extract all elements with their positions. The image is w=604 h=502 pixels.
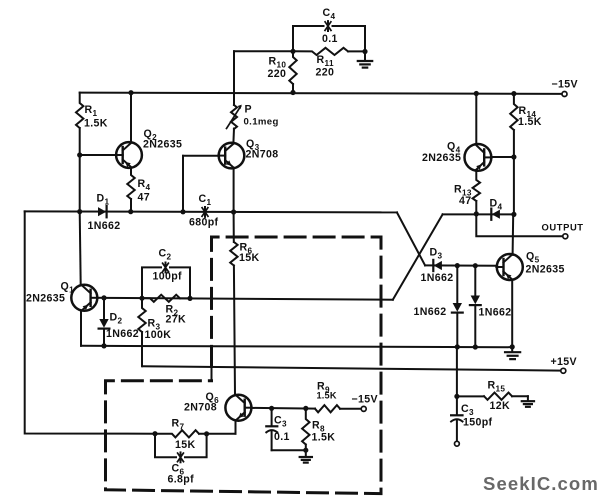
node: R11 right junction [362,49,367,54]
svg-text:100pf: 100pf [153,271,183,283]
watermark SeekIC.com [483,473,599,494]
svg-text:1.5K: 1.5K [317,391,337,401]
resistor R7 15K [155,418,236,451]
wire: Q6 emitter [235,420,237,434]
wire: crossover from feedback line to D4 line [393,214,443,299]
resistor R6 15K [230,212,259,395]
wire: Q4 collector [475,94,477,145]
svg-text:SeekIC.com: SeekIC.com [483,473,599,494]
svg-text:R4: R4 [138,178,151,192]
diode D3 1N662 [421,247,454,285]
ground (Q5 emitter) [505,347,520,359]
wire: P to Q3 collector [232,129,235,143]
wire: Q3 base drop to C1 node [182,156,184,212]
resistor R9 1.5K [315,381,361,413]
svg-text:2N708: 2N708 [184,402,217,414]
svg-text:15K: 15K [239,252,259,264]
svg-text:2N2635: 2N2635 [143,139,182,151]
dashed feedback enclosure [106,237,382,494]
svg-text:C3: C3 [461,403,474,417]
node: R13 bottom junction [474,211,479,216]
resistor R13 47 [454,171,480,214]
svg-text:1.5K: 1.5K [518,116,542,128]
capacitor C4 0.1 [293,7,365,52]
resistor R4 [127,168,150,212]
svg-text:1N662: 1N662 [479,306,512,318]
svg-text:D1: D1 [97,193,110,207]
svg-text:220: 220 [316,67,335,79]
transistor Q4 [422,141,492,171]
node: R8 top junction [303,406,308,411]
wire: D4 line [443,213,514,215]
node: Q3 emitter junction on C1 line [231,209,236,214]
svg-text:−15V: −15V [352,394,378,406]
svg-text:2N2635: 2N2635 [526,264,565,276]
node: R7 right junction [204,431,209,436]
node: R4 bottom junction [128,209,133,214]
svg-text:2N2635: 2N2635 [422,152,461,164]
wire: -15V supply rail [80,93,562,94]
transistor Q3 [218,138,278,168]
svg-text:0.1meg: 0.1meg [244,117,279,128]
ground (R15 right) [522,396,534,407]
node: R8 bottom junction [303,448,308,453]
svg-text:OUTPUT: OUTPUT [542,222,584,233]
capacitor C3 150pf [451,396,492,441]
capacitor C2 100pf [142,248,190,299]
svg-text:6.8pf: 6.8pf [168,474,195,486]
svg-text:1N662: 1N662 [106,328,139,340]
transistor Q6 [184,391,252,421]
svg-text:100K: 100K [145,329,172,341]
diode 1N662 (left vertical) [414,266,463,347]
diode D1 1N662 [88,193,121,232]
node: C3 top junction [269,406,274,411]
resistor R8 1.5K [302,408,335,450]
terminal -15V (bottom) [352,394,378,412]
wire: Q2 base lead [80,154,117,156]
wire: rail stub to dashed box corner [211,367,213,381]
terminal (C3 150pf bottom) [455,441,460,446]
wire: Q1 emitter [80,311,82,346]
svg-text:R15: R15 [488,380,506,394]
wire: Q3 base lead [183,155,219,157]
node: Q1 base junction [101,295,106,300]
svg-text:1N662: 1N662 [88,220,121,232]
node: rail junction at Q4 collector [474,91,479,96]
svg-text:R1: R1 [85,104,98,118]
node: D3 line junction left [455,263,460,268]
transistor Q5 [496,251,564,281]
wire: rail to P [233,51,235,105]
svg-text:D4: D4 [490,198,503,212]
svg-text:2N2635: 2N2635 [26,293,65,305]
svg-text:P: P [245,104,252,116]
svg-text:12K: 12K [490,400,510,412]
node: diode bottom junction left [455,344,460,349]
wire: left border down to R7 line [25,211,155,433]
node: R10 top junction [290,49,295,54]
svg-text:1N662: 1N662 [421,272,454,284]
wire: Q6 base line [251,407,315,410]
svg-text:C4: C4 [323,7,336,21]
wire: R14 to D4 line [513,157,515,214]
resistor R2 27K [142,295,190,326]
svg-text:2N708: 2N708 [246,149,279,161]
potentiometer P 0.1meg [227,104,279,130]
wire: R1 to D1 line [79,155,81,212]
node: D3 line junction right [473,263,478,268]
svg-text:1.5K: 1.5K [84,118,108,130]
wire: Q5 emitter [511,280,513,347]
wire: Q1 collector [80,212,81,285]
wire: C1-D1 horizontal line [25,211,397,212]
resistor R1 [76,93,108,155]
wire: crossover from C1 line to D3 line [397,212,425,265]
svg-text:220: 220 [268,68,287,80]
wire: ground line [81,346,512,347]
wire: D3 to Q5 base line [425,264,497,266]
node: D4 right junction [511,212,516,217]
terminal +15V [551,356,577,373]
capacitor C3 0.1 [266,408,306,450]
svg-text:1N662: 1N662 [414,306,447,318]
svg-text:−15V: −15V [552,79,578,91]
wire: P node to R10 top [234,50,293,52]
node: rail junction at R10 [290,90,295,95]
svg-text:0.1: 0.1 [322,33,338,45]
wire: +15V rail [143,366,561,370]
diode D2 1N662 [99,298,139,346]
wire: Q3 emitter [233,168,235,212]
node: Q3 base drop junction [180,209,185,214]
svg-text:R7: R7 [172,418,185,432]
svg-text:27K: 27K [166,314,186,326]
node: rail junction at R14 [511,91,516,96]
svg-text:+15V: +15V [551,356,577,368]
svg-text:C2: C2 [159,248,172,262]
svg-text:47: 47 [138,192,150,204]
capacitor C6 6.8pf [155,434,207,486]
diode 1N662 (right vertical) [470,266,512,347]
wire: Q4 base lead wire [491,156,514,158]
wire: Q1 base lead wire [97,297,104,299]
svg-text:1.5K: 1.5K [312,432,336,444]
node: Q2 base junction [77,152,82,157]
wire: Q5 collector [512,214,515,254]
svg-text:C3: C3 [274,415,287,429]
wire: diode node to C3 150pf [456,347,458,396]
resistor R3 100K [138,298,171,366]
wire: feedback line to crossover [104,298,393,300]
ground (C4/R11 right) [358,52,372,68]
svg-text:680pf: 680pf [189,217,219,229]
node: Q5 emitter ground junction [510,344,515,349]
transistor Q2 [116,128,183,168]
node: C3/R15 junction [454,394,459,399]
svg-text:150pf: 150pf [463,417,493,429]
node: rail junction at Q2 collector [128,90,133,95]
node: D1 line left junction [77,209,82,214]
node: R3 top junction [139,296,144,301]
node: R7 left junction [152,431,157,436]
svg-text:D2: D2 [110,312,123,326]
svg-text:D3: D3 [430,247,443,261]
node: diode bottom junction right [473,344,478,349]
terminal OUTPUT [542,222,584,239]
resistor R14 1.5K [510,94,542,157]
terminal -15V (top right) [552,79,578,97]
node: R2 right junction [187,296,192,301]
svg-text:0.1: 0.1 [274,431,290,443]
svg-text:15K: 15K [175,439,195,451]
wire: OUTPUT line [476,214,563,236]
resistor R11 220 [293,48,365,79]
node: D2 bottom junction [101,343,106,348]
resistor R15 12K [457,380,528,413]
svg-text:Q5: Q5 [526,251,540,265]
resistor R10 220 [268,51,297,92]
svg-text:47: 47 [459,195,471,207]
svg-text:C1: C1 [199,193,212,207]
capacitor C1 680pf [189,193,219,229]
ground (R8 bottom) [300,450,312,462]
wire: Q2 collector [130,93,132,143]
transistor Q1 [26,281,98,311]
node: Q4 base junction [511,154,516,159]
diode D4 [490,198,503,220]
